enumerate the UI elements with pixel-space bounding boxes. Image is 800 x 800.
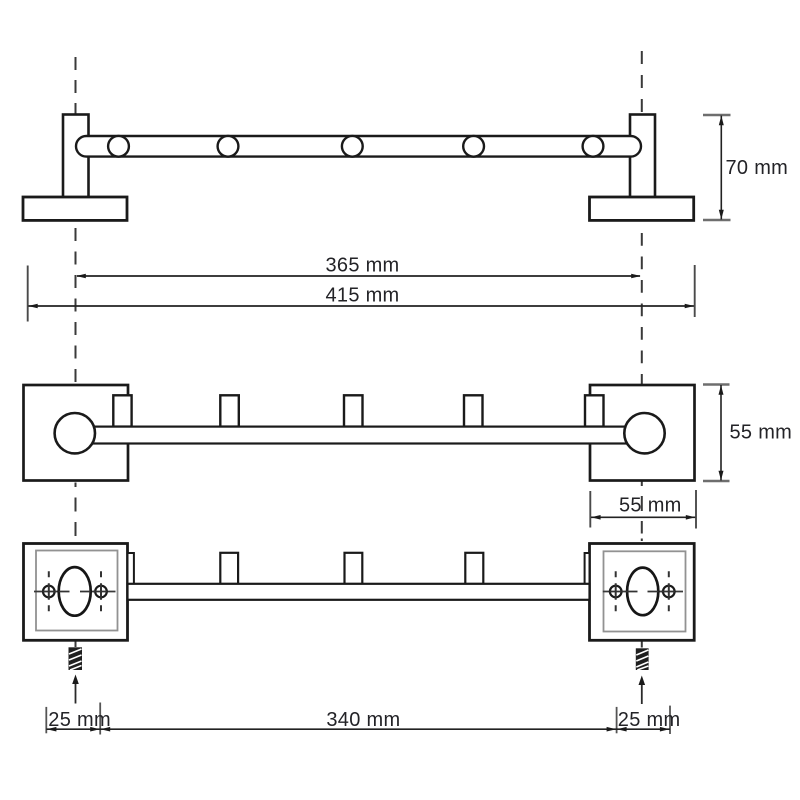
front view: hole A [43,586,55,598]
top view: left base plate [23,197,127,220]
front view: hole C vertical centerline [615,571,617,611]
plan view: bar [75,427,645,444]
front view: hole D vertical centerline [668,571,670,611]
front view: right ellipse [627,568,658,616]
front view: hook 2 [220,553,238,584]
centerline left segment B [75,228,77,385]
bottom dim tick 3 [616,707,618,733]
bottom dim tick 1 [45,707,47,733]
front view: right outer square [590,544,695,641]
centerline left segment A [75,57,77,115]
dim 70mm line [720,116,722,220]
plan view: right post circle [624,413,664,453]
bottom dim arrows at 100 butterfly [90,727,100,732]
plan view: left square plate [24,385,129,481]
front view: hook 4 [465,553,483,584]
front view: left inner square [36,551,118,631]
plan view: hook 2 [220,395,239,426]
dim 55mm right line [720,385,722,481]
centerline right segment C [641,482,643,542]
front view: right centerline horizontal segments over shapes [610,591,676,593]
top view: bar stadium [76,136,641,157]
front view: hole D [663,586,675,598]
dim 70mm top tick [703,114,731,116]
right anchor insert arrow [639,676,646,705]
svg-text:55 mm: 55 mm [619,494,682,516]
dim 415mm right extension [694,265,696,317]
front view: hook 1 stub [128,553,134,584]
plan view: left post circle [55,413,95,453]
top view: left post [63,115,89,198]
dim 55mm bottom right extension [695,490,697,529]
front view: hook 5 stub [585,553,590,584]
dim 415mm arrow right [685,304,695,309]
front view: bar [128,584,590,600]
bottom dim tick 4 [669,706,671,734]
front view: hole C [610,586,622,598]
plan view: hook 5 [585,395,604,426]
svg-text:55 mm: 55 mm [730,422,793,444]
svg-text:340 mm: 340 mm [326,709,400,731]
dim 365mm arrow left [76,274,86,279]
bottom dim line [46,728,670,730]
dim 415mm line [29,305,694,307]
plan view: right square plate [590,385,695,481]
front view: hole A vertical centerline [48,571,50,611]
front view: right inner square [604,551,686,631]
top view: hook ring 1 [108,136,129,157]
centerline right segment B [641,233,643,385]
plan view: hook 1 [113,395,131,426]
top view: hook ring 5 [583,136,604,157]
front view: hook 3 [345,553,363,584]
centerline left segment D [75,642,77,648]
dim 70mm arrow up [719,116,724,126]
svg-text:25 mm: 25 mm [48,709,111,731]
front view: hole B vertical centerline [100,571,102,611]
svg-text:415 mm: 415 mm [325,285,399,307]
dim 415mm left extension [27,266,29,322]
centerline right segment D [641,642,643,648]
dim 55mm right bottom tick [703,480,730,482]
plan view: hook 3 [344,395,363,426]
front view: left centerline horizontal segments over shapes [43,591,108,593]
front view: right centerline horizontal (underlay) [603,591,683,593]
dim 55mm bottom arrow left [591,515,601,520]
dim 55mm right top tick [703,383,730,385]
dim 55mm bottom arrow right [686,515,696,520]
dim 365mm arrow right [631,274,641,279]
front view: hole B [95,586,107,598]
svg-text:25 mm: 25 mm [618,709,681,731]
top view: hook ring 3 [342,136,363,157]
bottom dim arrow at 670 right [660,727,670,732]
front view: left outer square [24,544,128,641]
top view: hook ring 2 [218,136,239,157]
plan view: hook 4 [464,395,483,426]
dim 55mm bottom line [591,516,695,518]
bottom dim tick 2 [99,703,101,735]
left anchor insert arrow [72,675,79,704]
left wall anchor [69,647,83,670]
top view: hook ring 4 [463,136,484,157]
dim 55mm bottom left extension [589,491,591,528]
dim 70mm arrow down [719,210,724,220]
centerline left segment C [75,483,77,537]
dim 365mm line [77,275,640,277]
dim 55mm right arrow down [719,471,724,481]
dim 70mm bottom tick [703,219,731,221]
svg-text:365 mm: 365 mm [325,255,399,277]
centerline right segment A [641,51,643,115]
right wall anchor [636,648,649,670]
svg-text:70 mm: 70 mm [726,157,789,179]
dim 55mm right arrow up [719,385,724,395]
top view: right post [630,115,655,198]
front view: left centerline horizontal (underlay) [34,591,116,593]
front view: left ellipse [59,567,91,616]
top view: right base plate [590,197,694,220]
bottom dim arrow at 46 left [47,727,57,732]
bottom dim arrows at 616 butterfly [607,727,617,732]
dim 415mm arrow left [28,304,38,309]
